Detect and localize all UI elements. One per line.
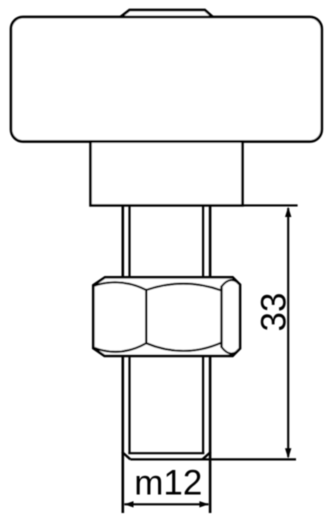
svg-text:m12: m12 — [134, 464, 202, 503]
svg-text:33: 33 — [255, 293, 294, 332]
